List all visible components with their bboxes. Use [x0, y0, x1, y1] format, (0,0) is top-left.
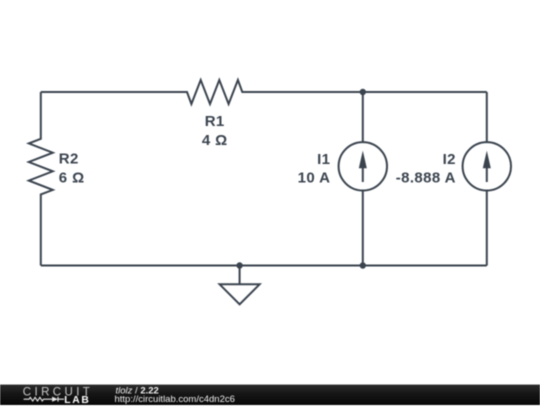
svg-text:-8.888 A: -8.888 A: [396, 169, 456, 186]
svg-text:6 Ω: 6 Ω: [59, 169, 85, 186]
svg-text:4 Ω: 4 Ω: [202, 132, 228, 149]
svg-text:I2: I2: [443, 151, 456, 168]
svg-text:10 A: 10 A: [298, 169, 331, 186]
svg-text:R1: R1: [205, 113, 225, 130]
svg-text:http://circuitlab.com/c4dn2c6: http://circuitlab.com/c4dn2c6: [115, 394, 235, 405]
svg-text:LAB: LAB: [64, 395, 90, 405]
svg-text:R2: R2: [59, 151, 79, 168]
svg-text:I1: I1: [317, 151, 330, 168]
